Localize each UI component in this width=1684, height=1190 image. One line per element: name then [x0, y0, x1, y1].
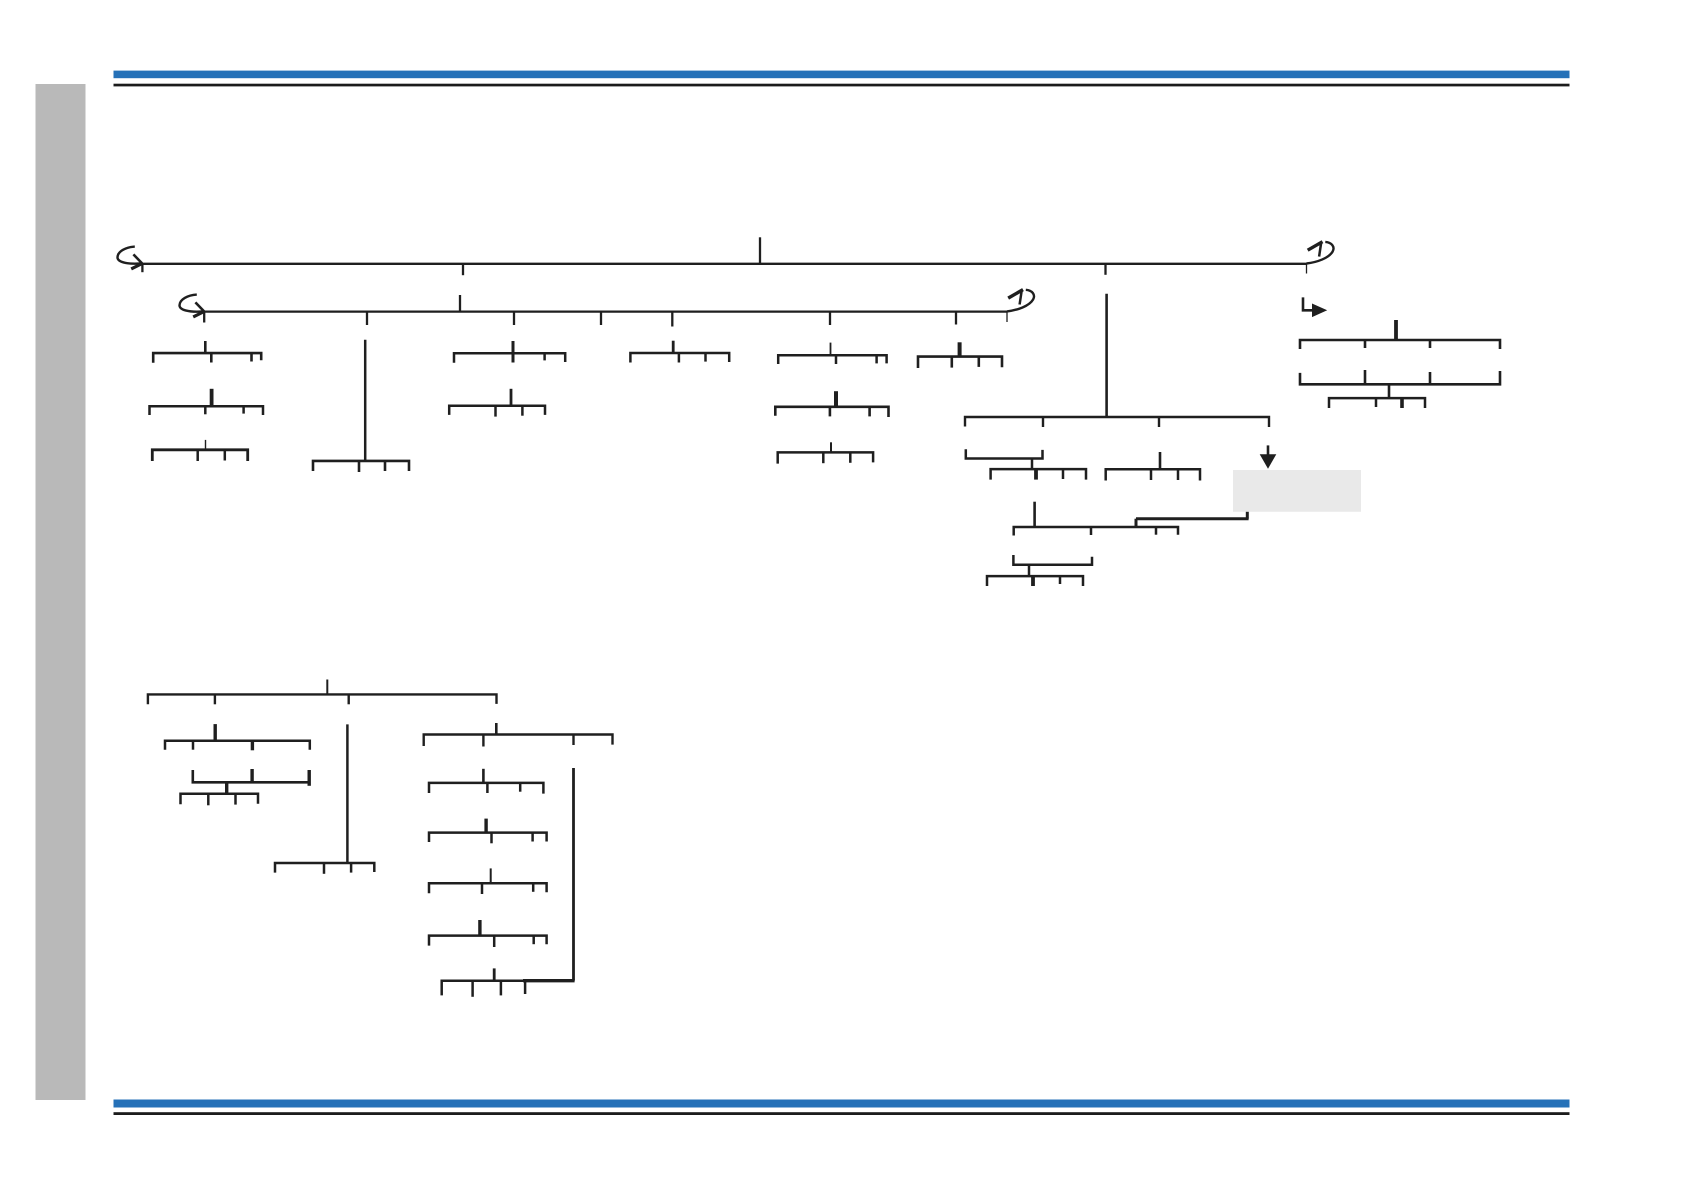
bracket O — [1106, 452, 1200, 481]
line 1 child tick x1105 — [1104, 264, 1106, 275]
bracket Q cup — [1013, 555, 1092, 576]
line 2 right curl arrow — [1007, 290, 1034, 312]
bottom black rule — [114, 1112, 1570, 1115]
bracket B3 — [429, 868, 547, 894]
bracket H — [778, 343, 886, 364]
bracket B5 — [442, 968, 575, 996]
continuation arrow (corner) — [1303, 297, 1313, 310]
bracket B — [150, 389, 264, 415]
bracket R — [987, 576, 1083, 586]
bracket G — [630, 341, 729, 363]
line 1 right curl arrow — [1307, 242, 1334, 264]
bracket N — [991, 469, 1086, 480]
generation line 2 — [204, 310, 1007, 312]
line 1 end tick — [1306, 264, 1308, 274]
bracket Y — [181, 794, 259, 806]
bracket S — [1300, 320, 1500, 349]
bracket B4 — [429, 920, 547, 947]
bracket J — [775, 391, 888, 417]
line 1 parent stub x760 — [759, 237, 761, 263]
bracket V2 — [275, 863, 374, 874]
line 1 child tick x463 — [462, 264, 464, 275]
bracket V root — [148, 680, 497, 705]
bracket U — [1329, 398, 1425, 408]
bracket E — [454, 341, 565, 363]
bracket D — [313, 461, 409, 472]
line 1 left curl arrow — [117, 247, 140, 264]
bottom blue bar — [114, 1100, 1570, 1108]
gray highlight box — [1233, 470, 1361, 512]
bracket P — [1014, 502, 1178, 536]
left gray sidebar — [36, 84, 86, 1100]
bracket B1 — [429, 769, 543, 794]
bracket M cup — [966, 449, 1043, 469]
line 1 start tick — [141, 264, 143, 272]
line 2 start tick — [203, 312, 205, 323]
down arrow — [1267, 445, 1270, 455]
bracket A — [153, 341, 261, 363]
step connector from gray box — [1136, 512, 1249, 527]
generation line 1 — [142, 263, 1307, 265]
top black rule — [114, 84, 1570, 87]
bracket I — [918, 342, 1002, 368]
bracket W — [165, 724, 310, 750]
bracket L — [965, 417, 1269, 427]
drop line to bracket L — [1105, 294, 1108, 417]
drop line to bracket D — [364, 340, 367, 461]
bracket C — [152, 440, 247, 461]
bracket T cup — [1300, 370, 1500, 398]
line 2 end tick — [1006, 312, 1008, 322]
line 2 child ticks — [366, 312, 368, 325]
top blue bar — [114, 71, 1570, 79]
long drop line right — [572, 768, 575, 981]
bracket X cup — [193, 769, 309, 794]
bracket B2 — [429, 819, 547, 844]
line 2 parent stub x460 — [459, 295, 461, 312]
bracket Z — [424, 723, 613, 747]
line 2 left curl arrow — [179, 295, 202, 312]
bracket K — [778, 442, 873, 463]
drop line to bracket V2 — [346, 724, 349, 863]
bracket F — [449, 389, 545, 417]
